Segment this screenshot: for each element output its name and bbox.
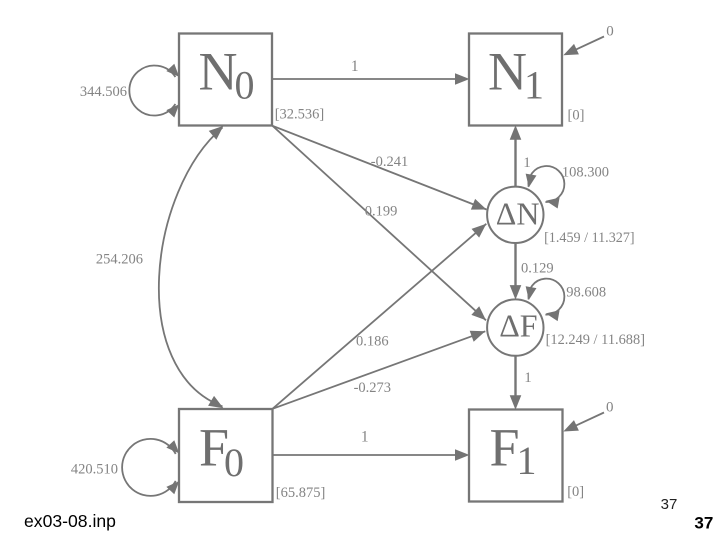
svg-text:F1: F1 [490, 417, 537, 483]
svg-text:0.129: 0.129 [521, 261, 554, 277]
arrow 0 to N1 [561, 37, 604, 61]
arrow dN to dF [510, 243, 522, 300]
label dF [499, 308, 537, 344]
value 0 at F1 [606, 399, 614, 415]
arrow 0 to F1 [561, 413, 604, 437]
value 254.206 [96, 252, 143, 268]
svg-text:[65.875]: [65.875] [276, 485, 326, 501]
value 0 at N1 [606, 24, 614, 40]
label F1 [490, 417, 537, 483]
value 1 on dF-F1 [524, 370, 532, 386]
arrow F0 to dF [273, 326, 488, 409]
filename ex03-08.inp [24, 511, 116, 531]
arrow N0 to N1 [272, 73, 470, 85]
value -0.273 [354, 380, 391, 396]
svg-text:0.186: 0.186 [356, 334, 389, 350]
page number 37 bold [694, 514, 713, 533]
variance loop dN [523, 166, 564, 208]
box F1 [469, 410, 563, 502]
svg-text:37: 37 [694, 514, 713, 533]
label F0 [199, 417, 244, 485]
arrow N0 to dF [273, 126, 490, 325]
svg-text:[1.459 / 11.327]: [1.459 / 11.327] [544, 230, 635, 246]
value 420.510 [71, 462, 118, 478]
svg-text:F0: F0 [199, 417, 244, 485]
value 1 on F0-F1 [361, 429, 369, 446]
arrow F0 to dN [273, 219, 491, 408]
svg-text:1: 1 [523, 155, 531, 171]
svg-text:1: 1 [351, 58, 359, 75]
svg-text:ΔF: ΔF [499, 308, 537, 344]
value 98.608 [566, 285, 606, 301]
value 0.186 [356, 334, 389, 350]
value 108.300 [562, 165, 609, 181]
value -0.241 [371, 154, 408, 170]
svg-text:N0: N0 [199, 41, 255, 107]
svg-text:[32.536]: [32.536] [275, 107, 325, 123]
value [65.875] [276, 485, 326, 501]
arrow dF to F1 [510, 356, 522, 410]
svg-text:344.506: 344.506 [80, 84, 127, 100]
svg-text:1: 1 [361, 429, 369, 446]
svg-text:ΔN: ΔN [496, 195, 540, 231]
value [12.249 / 11.688] [546, 332, 645, 348]
value [32.536] [275, 107, 325, 123]
box N0 [179, 34, 272, 126]
value 1 on N0-N1 [351, 58, 359, 75]
svg-text:254.206: 254.206 [96, 252, 143, 268]
svg-text:0: 0 [606, 399, 614, 415]
box F0 [179, 409, 273, 502]
latent circle dN [487, 187, 543, 243]
svg-text:0: 0 [606, 24, 614, 40]
variance loop F0 [122, 439, 183, 496]
variance loop N0 [129, 64, 183, 118]
value [1.459 / 11.327] [544, 230, 635, 246]
box N1 [469, 34, 562, 126]
value 1 on dN-N1 [523, 155, 531, 171]
svg-text:420.510: 420.510 [71, 462, 118, 478]
label N1 [488, 41, 544, 107]
svg-text:108.300: 108.300 [562, 165, 609, 181]
value [0] at N1 [568, 108, 585, 124]
svg-text:98.608: 98.608 [566, 285, 606, 301]
value 344.506 [80, 84, 127, 100]
arrow N0 to dN [273, 126, 489, 215]
value [0] at F1 [567, 484, 584, 500]
variance loop dF [523, 279, 564, 321]
arrow F0 to F1 [273, 449, 470, 461]
covariance arrow N0-F0 [159, 121, 227, 413]
latent circle dF [487, 299, 543, 355]
arrow dN to N1 [510, 125, 522, 186]
svg-text:N1: N1 [488, 41, 544, 107]
svg-text:-0.241: -0.241 [371, 154, 408, 170]
value 0.199 [365, 204, 398, 220]
svg-text:[0]: [0] [568, 108, 585, 124]
svg-text:[0]: [0] [567, 484, 584, 500]
label dN [496, 195, 540, 231]
value 0.129 on dN-dF [521, 261, 554, 277]
svg-text:37: 37 [661, 496, 678, 513]
svg-text:-0.273: -0.273 [354, 380, 391, 396]
svg-text:ex03-08.inp: ex03-08.inp [24, 511, 116, 531]
page number 37 small [661, 496, 678, 513]
label N0 [199, 41, 255, 107]
svg-text:0.199: 0.199 [365, 204, 398, 220]
svg-text:[12.249 / 11.688]: [12.249 / 11.688] [546, 332, 645, 348]
svg-text:1: 1 [524, 370, 532, 386]
